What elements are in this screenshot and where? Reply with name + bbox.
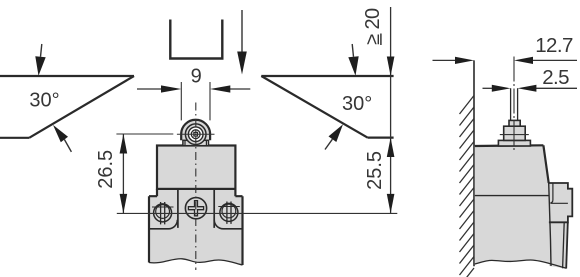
- right cam top line: [261, 75, 393, 77]
- side lower right seam: [563, 222, 565, 268]
- 25.5 arrowhead down: [387, 194, 395, 214]
- body outline edges: [149, 189, 243, 265]
- right vertical dimension line: [390, 7, 392, 213]
- side body top edge: [475, 144, 544, 147]
- right actuation arrow (down onto top line): [348, 44, 358, 76]
- 2.5 dimension line right: [518, 85, 577, 92]
- side body seam: [475, 195, 550, 197]
- left actuation arrow (down onto top line): [35, 44, 45, 76]
- body break line: [149, 259, 243, 265]
- plunger channel walls: [178, 189, 214, 228]
- dimension 9 extension lines: [181, 82, 210, 120]
- 26.5 arrowhead up: [120, 134, 128, 154]
- centre cover screw: [185, 198, 206, 219]
- svg-text:9: 9: [191, 66, 202, 88]
- roller base plate ticks: [185, 140, 206, 145]
- side body right edge (behind protrusion): [549, 183, 551, 266]
- 26.5 arrowhead down: [120, 194, 128, 214]
- 25.5 label (rotated): [364, 151, 386, 190]
- roller crosshair: [177, 133, 215, 135]
- 12.7 dimension line left: [433, 57, 475, 64]
- left cam bottom line: [0, 137, 29, 139]
- 26.5 dimension line: [122, 134, 124, 213]
- protrusion internal lines: [550, 183, 568, 203]
- left cam top line: [0, 75, 134, 77]
- vertical actuation arrow: [237, 10, 247, 75]
- dimension 9 line left: [137, 85, 181, 92]
- side view centreline: [513, 57, 515, 151]
- screw centre extension line: [117, 212, 398, 214]
- roller dome fill: [181, 120, 210, 141]
- tower reference line: [500, 134, 529, 136]
- right terminal screw: [218, 202, 240, 224]
- plunger tower top tier: [509, 120, 520, 126]
- plunger tower middle tier: [504, 126, 526, 140]
- 26.5 label (rotated): [95, 150, 117, 189]
- cable clamp U-bracket: [170, 20, 222, 59]
- svg-text:26.5: 26.5: [95, 150, 117, 189]
- wall hatching: [460, 96, 475, 277]
- svg-text:12.7: 12.7: [535, 34, 573, 57]
- svg-text:30°: 30°: [342, 93, 372, 115]
- dim >=20 label (rotated): [362, 8, 384, 45]
- 25.5 arrowhead up: [387, 138, 395, 157]
- side break line: [475, 260, 567, 268]
- svg-text:25.5: 25.5: [364, 151, 386, 190]
- head fill+outline: [157, 146, 235, 189]
- left slope approach arrow: [53, 125, 71, 152]
- side body right slant: [543, 145, 548, 183]
- roller dome outline: [181, 120, 210, 141]
- side body fill lower right: [549, 222, 568, 268]
- roller base plate: [183, 140, 209, 145]
- side protrusion outline: [549, 183, 573, 222]
- front view centreline: [195, 103, 197, 271]
- side lower right outer edge: [566, 222, 568, 268]
- roller axle square: [194, 132, 198, 136]
- wall line: [473, 60, 475, 266]
- svg-text:30°: 30°: [29, 90, 59, 112]
- dimension 9 line right: [210, 85, 250, 92]
- switch body lower block fill: [149, 189, 243, 265]
- right cam bottom line: [368, 137, 394, 139]
- >=20 arrowhead down: [387, 57, 395, 77]
- 12.7 dimension line right: [514, 57, 577, 64]
- svg-text:2.5: 2.5: [542, 66, 569, 89]
- roller circles: [185, 124, 206, 145]
- right terminal pocket bottom: [214, 220, 242, 229]
- right slope approach arrow: [325, 124, 343, 149]
- left cam 30deg slope: [29, 76, 134, 138]
- left terminal pocket bottom: [150, 220, 178, 229]
- plunger pin lines: [511, 88, 518, 120]
- 26.5 extension line top: [116, 133, 173, 135]
- 2.5 dimension line left: [483, 85, 511, 92]
- plunger tower base tier: [498, 140, 530, 146]
- left terminal screw: [152, 202, 174, 224]
- side view body fill: [475, 145, 573, 268]
- right cam 30deg slope: [261, 76, 367, 138]
